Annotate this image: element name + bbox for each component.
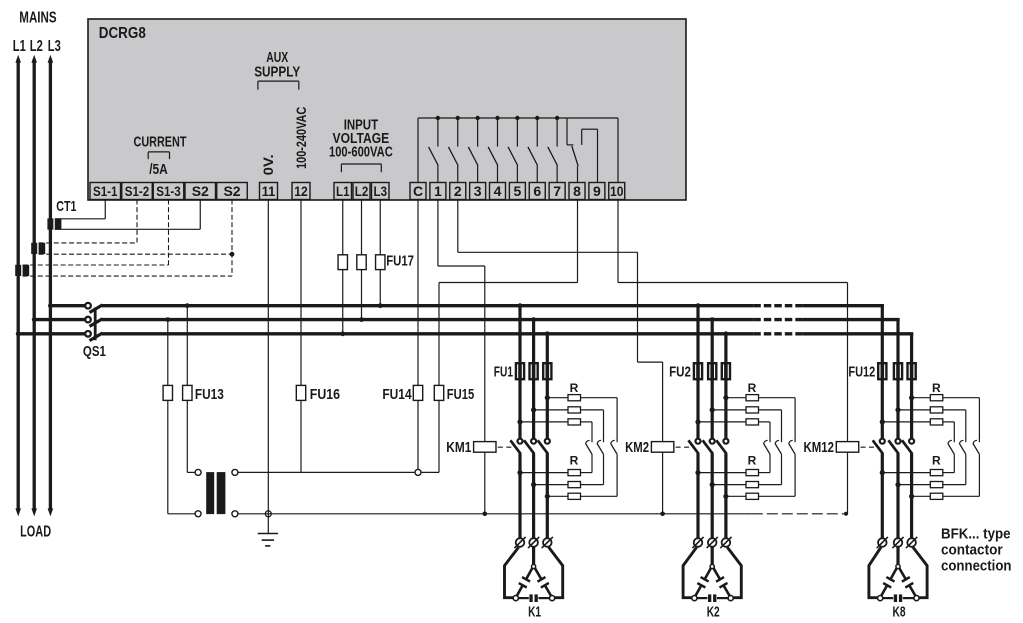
svg-text:S1-3: S1-3 — [156, 183, 181, 199]
svg-text:/5A: /5A — [149, 161, 168, 178]
svg-text:QS1: QS1 — [83, 343, 106, 360]
svg-text:R: R — [570, 381, 579, 395]
svg-text:DCRG8: DCRG8 — [99, 25, 146, 42]
svg-text:100-240VAC: 100-240VAC — [293, 107, 309, 169]
svg-text:11: 11 — [262, 183, 276, 199]
svg-text:10: 10 — [610, 183, 624, 199]
svg-text:100-600VAC: 100-600VAC — [329, 145, 393, 161]
svg-text:FU13: FU13 — [195, 386, 224, 403]
svg-text:L2: L2 — [30, 38, 43, 55]
svg-text:R: R — [932, 454, 941, 468]
svg-text:R: R — [932, 381, 941, 395]
svg-text:2: 2 — [454, 183, 462, 199]
svg-text:L3: L3 — [48, 38, 61, 55]
svg-text:CT1: CT1 — [56, 198, 76, 215]
svg-text:8: 8 — [573, 183, 581, 199]
svg-text:CURRENT: CURRENT — [134, 134, 187, 151]
svg-text:KM1: KM1 — [446, 439, 471, 456]
svg-text:S2: S2 — [223, 183, 240, 199]
svg-text:L1: L1 — [336, 183, 350, 199]
svg-text:0V.: 0V. — [260, 154, 276, 175]
svg-text:7: 7 — [553, 183, 561, 199]
svg-text:FU17: FU17 — [386, 253, 414, 270]
svg-text:S1-2: S1-2 — [125, 183, 150, 199]
svg-text:R: R — [570, 454, 579, 468]
svg-text:LOAD: LOAD — [20, 523, 51, 540]
svg-text:S2: S2 — [192, 183, 209, 199]
svg-text:1: 1 — [434, 183, 442, 199]
svg-text:contactor: contactor — [941, 542, 1003, 559]
svg-text:BFK... type: BFK... type — [941, 526, 1011, 543]
svg-text:FU15: FU15 — [447, 386, 474, 403]
svg-text:R: R — [748, 454, 757, 468]
svg-text:connection: connection — [941, 558, 1012, 575]
svg-text:L1: L1 — [13, 38, 26, 55]
svg-text:5: 5 — [513, 183, 521, 199]
svg-text:SUPPLY: SUPPLY — [254, 64, 300, 81]
svg-text:KM12: KM12 — [804, 439, 835, 456]
svg-text:4: 4 — [494, 183, 502, 199]
svg-text:FU14: FU14 — [382, 386, 412, 403]
svg-text:FU1: FU1 — [494, 364, 513, 381]
svg-text:L3: L3 — [374, 183, 388, 199]
svg-text:K2: K2 — [707, 604, 720, 621]
svg-text:6: 6 — [533, 183, 541, 199]
svg-text:FU16: FU16 — [310, 386, 340, 403]
svg-text:C: C — [413, 183, 423, 199]
svg-text:FU2: FU2 — [669, 364, 691, 381]
svg-text:9: 9 — [593, 183, 601, 199]
svg-text:R: R — [748, 381, 757, 395]
svg-text:K1: K1 — [528, 604, 541, 621]
svg-text:MAINS: MAINS — [19, 10, 57, 27]
svg-text:12: 12 — [294, 183, 308, 199]
svg-text:KM2: KM2 — [625, 439, 649, 456]
svg-text:FU12: FU12 — [848, 364, 875, 381]
svg-text:K8: K8 — [893, 604, 906, 621]
svg-text:L2: L2 — [355, 183, 369, 199]
svg-text:S1-1: S1-1 — [93, 183, 118, 199]
svg-text:3: 3 — [474, 183, 482, 199]
